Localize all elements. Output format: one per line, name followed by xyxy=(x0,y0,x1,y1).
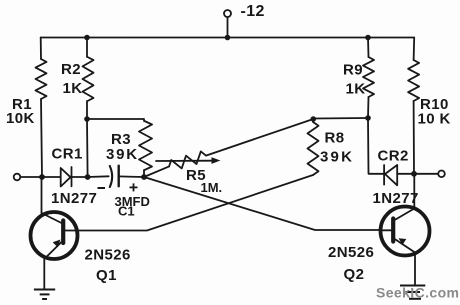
svg-text:10K: 10K xyxy=(6,110,35,127)
wire R9 top xyxy=(367,38,370,58)
wire R8 to R9 junction xyxy=(313,117,368,120)
wire R2 bottom xyxy=(86,101,88,119)
wire R9 down to CR2 xyxy=(368,118,384,174)
svg-text:1K: 1K xyxy=(346,81,366,98)
node A (C1/R3/R5) xyxy=(141,174,147,180)
wire Q2 collector xyxy=(413,174,415,209)
resistor R3 xyxy=(139,121,152,170)
terminal input xyxy=(14,174,21,181)
wire Q1 emitter xyxy=(43,258,45,290)
resistor R5 xyxy=(169,151,206,168)
wire R1 branch top xyxy=(40,38,42,60)
wire Q1 base diagonal to R8 bottom xyxy=(65,175,313,231)
svg-text:-12: -12 xyxy=(241,3,265,20)
wire R1 bottom xyxy=(41,99,42,177)
wire R3 bottom xyxy=(143,170,145,177)
node output/R10/collector xyxy=(411,171,417,177)
svg-text:Q2: Q2 xyxy=(344,266,365,283)
wire Q2 emitter xyxy=(414,253,416,286)
ground (Q1 emitter) xyxy=(34,290,55,300)
svg-text:1N277: 1N277 xyxy=(51,190,97,207)
transistor Q1 xyxy=(31,212,78,259)
wire R8 top stub xyxy=(312,119,314,122)
svg-text:2N526: 2N526 xyxy=(85,247,131,264)
svg-text:CR1: CR1 xyxy=(52,146,83,163)
wire R5 left lead xyxy=(144,166,169,177)
wire R5 to R8 top xyxy=(206,119,313,156)
svg-text:2N526: 2N526 xyxy=(328,244,374,261)
ground (Q2 emitter) xyxy=(400,286,425,299)
terminal output xyxy=(438,171,445,178)
diode CR1 xyxy=(61,168,71,187)
node R9 top xyxy=(365,35,371,41)
wire power stem xyxy=(227,17,229,38)
svg-text:CR2: CR2 xyxy=(378,148,409,165)
wire input lead xyxy=(21,176,43,178)
resistor R2 xyxy=(83,57,94,101)
wire R2 down to CR1 cathode xyxy=(86,119,89,177)
wire node A diagonal to Q2 base xyxy=(144,177,381,230)
wire R2 to R3 xyxy=(87,119,144,121)
wire R10 branch xyxy=(413,38,416,61)
node R9 bottom xyxy=(365,115,371,121)
capacitor C1 xyxy=(110,166,112,187)
svg-text:39K: 39K xyxy=(106,146,139,163)
wire R2 top xyxy=(86,38,88,58)
svg-text:39K: 39K xyxy=(320,149,354,166)
svg-text:Q1: Q1 xyxy=(96,267,117,284)
polarity minus xyxy=(98,187,106,189)
wire to capacitor xyxy=(88,175,109,178)
node R8 top xyxy=(311,116,317,122)
resistor R10 xyxy=(408,60,419,101)
diode CR2 xyxy=(383,165,385,185)
svg-text:1K: 1K xyxy=(63,80,83,97)
wire output lead xyxy=(414,173,439,175)
svg-text:R2: R2 xyxy=(61,61,81,78)
node R2 top xyxy=(84,35,90,41)
node R2/R3 xyxy=(84,116,90,122)
wire CR2 anode lead xyxy=(397,173,413,175)
wire R10 bottom xyxy=(413,101,415,174)
svg-text:1N277: 1N277 xyxy=(373,190,419,207)
wire R5 wiper arrow xyxy=(156,160,212,162)
transistor Q2 xyxy=(381,207,430,256)
terminal -12 xyxy=(224,10,231,17)
wire CR1 cathode lead xyxy=(72,176,88,178)
node junction dots xyxy=(39,35,417,180)
svg-text:SeekIC.com: SeekIC.com xyxy=(376,285,459,301)
svg-text:C1: C1 xyxy=(118,204,135,219)
node power/rail xyxy=(225,35,231,41)
wire cap to node xyxy=(119,175,144,178)
wire R9 bottom xyxy=(367,97,370,118)
resistor R9 xyxy=(363,57,374,97)
node input/R1/collector xyxy=(39,174,45,180)
polarity plus xyxy=(130,183,138,191)
svg-text:1M.: 1M. xyxy=(201,180,223,195)
resistor R1 xyxy=(36,59,47,99)
resistor R8 xyxy=(308,122,319,175)
node CR1 cathode xyxy=(85,174,91,180)
wire Q1 collector xyxy=(41,177,43,213)
svg-text:10 K: 10 K xyxy=(418,111,451,128)
wiper arrowhead of R5 xyxy=(212,157,221,164)
wire top rail xyxy=(41,37,415,39)
wire diode anode lead xyxy=(42,176,61,178)
svg-text:R8: R8 xyxy=(325,130,345,147)
svg-text:R9: R9 xyxy=(343,62,363,79)
